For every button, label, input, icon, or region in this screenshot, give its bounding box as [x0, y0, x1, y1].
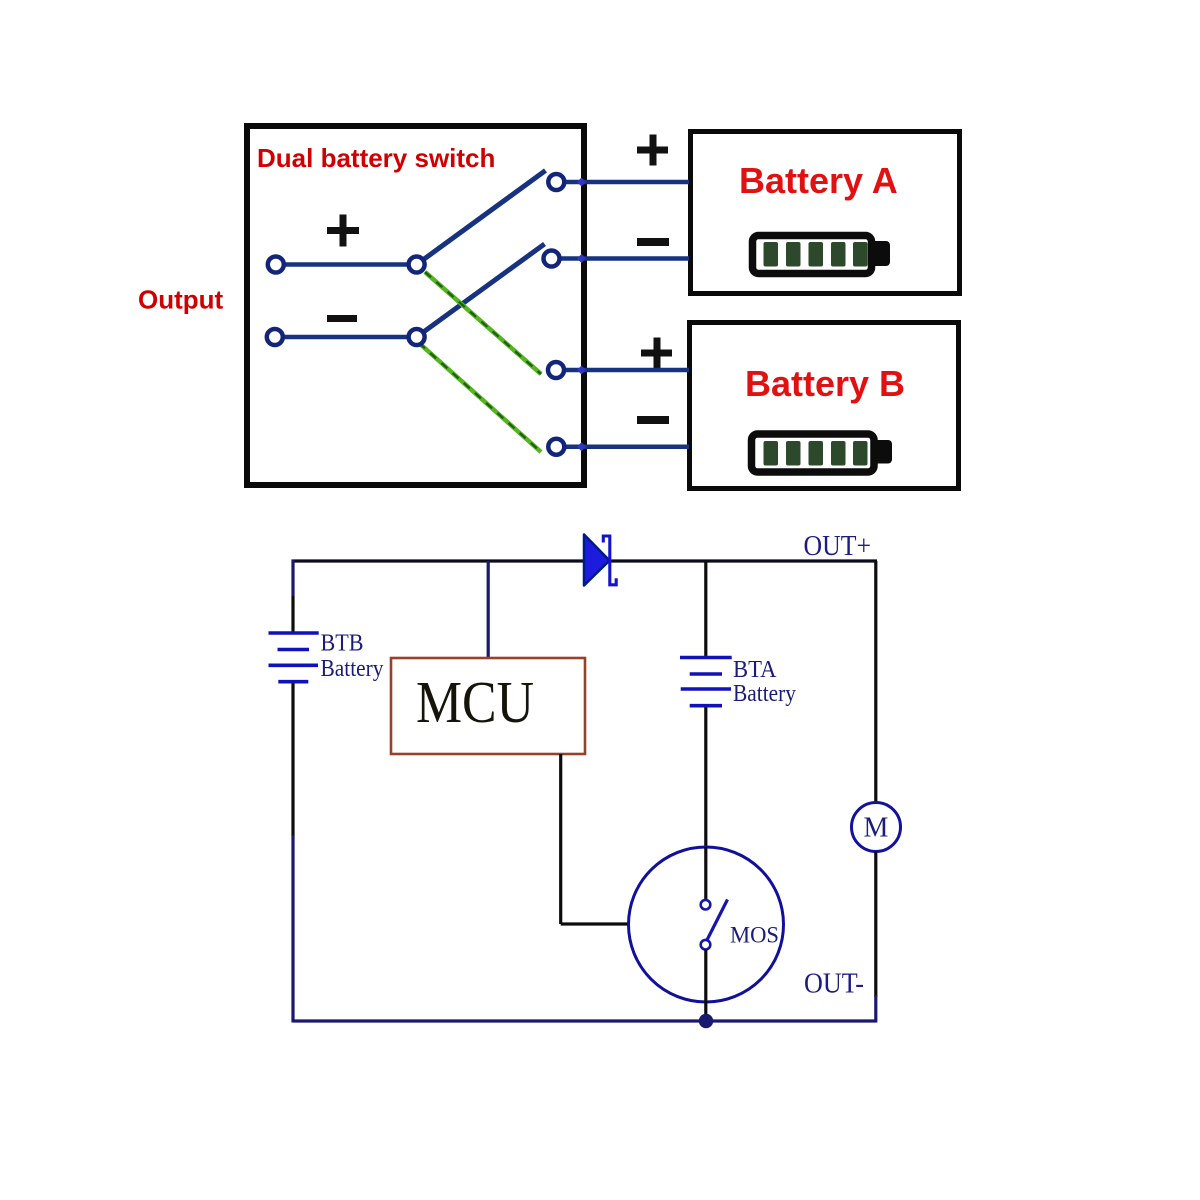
wire OUT+ rail — [292, 559, 878, 562]
wire crossing node A plus — [577, 177, 586, 186]
open position green line to Battery B minus — [419, 343, 541, 452]
Battery A box — [691, 132, 960, 294]
wire bottom rail — [293, 1019, 876, 1022]
node output plus — [268, 257, 284, 273]
svg-text:M: M — [864, 813, 889, 844]
node battery B plus — [548, 362, 564, 378]
minus label battery B — [637, 416, 669, 424]
svg-text:BTB: BTB — [321, 631, 364, 657]
node common plus — [409, 257, 425, 273]
MOS switch circle Q1 — [629, 847, 784, 1002]
plus label output — [327, 215, 359, 247]
wire left lower navy — [291, 835, 294, 1023]
svg-text:MOS: MOS — [730, 923, 779, 948]
wire crossing node B minus — [577, 442, 586, 451]
svg-text:Battery: Battery — [321, 656, 384, 682]
MOS blade — [707, 900, 728, 941]
node common minus — [409, 329, 425, 345]
svg-text:Battery B: Battery B — [745, 363, 905, 404]
wire BTB bottom black — [291, 684, 294, 837]
svg-text:BTA: BTA — [733, 657, 777, 683]
battery BTA — [680, 658, 732, 706]
wire terminal to Battery A minus — [552, 256, 689, 261]
diode D1 — [584, 535, 616, 586]
battery BTB — [269, 633, 319, 682]
wire output plus — [276, 262, 416, 267]
svg-text:Dual battery switch: Dual battery switch — [257, 143, 495, 173]
node output minus — [267, 329, 283, 345]
minus label battery A — [637, 238, 669, 246]
wire BTA top — [704, 561, 707, 657]
plus label battery B — [641, 338, 672, 369]
MOS contact top — [701, 900, 711, 910]
wire terminal to Battery A plus — [556, 180, 689, 185]
wire crossing node A minus — [577, 254, 586, 263]
node battery B minus — [548, 439, 564, 455]
plus label battery A — [637, 135, 668, 166]
wire crossing node B plus — [577, 365, 586, 374]
node battery A minus — [544, 251, 560, 267]
Battery B box — [690, 323, 959, 489]
wire output minus — [275, 335, 416, 340]
wire MCU top — [487, 561, 490, 659]
svg-text:Battery A: Battery A — [739, 160, 898, 201]
wire motor bottom — [874, 852, 877, 998]
MOS contact bottom — [701, 940, 711, 950]
svg-text:OUT-: OUT- — [804, 968, 864, 1000]
battery icon B — [752, 434, 893, 472]
node battery A plus — [548, 174, 564, 190]
svg-text:MCU: MCU — [416, 669, 534, 735]
switch blade plus to Battery A — [417, 171, 546, 265]
junction node — [699, 1014, 713, 1028]
motor M1 — [852, 803, 901, 852]
wire terminal to Battery B minus — [556, 444, 689, 449]
svg-text:OUT+: OUT+ — [804, 530, 872, 562]
svg-text:Battery: Battery — [733, 681, 796, 707]
dual battery switch box — [247, 126, 584, 485]
wire terminal to Battery B plus — [556, 368, 689, 373]
battery icon A — [753, 236, 891, 274]
wire BTB top — [291, 560, 294, 597]
MCU box U1 — [391, 658, 585, 754]
minus label output — [327, 315, 357, 322]
svg-text:Output: Output — [138, 285, 224, 315]
wire MOS bottom — [704, 950, 707, 1022]
switch blade minus to Battery A — [417, 244, 545, 337]
wire MCU gate vertical — [559, 754, 562, 924]
open position green line to Battery B plus — [425, 272, 541, 374]
wire right lower navy — [874, 995, 877, 1023]
wire BTA bottom — [704, 708, 707, 849]
wire MCU gate horizontal — [561, 922, 630, 925]
wire into MOS top — [704, 847, 707, 900]
wire motor top — [874, 561, 877, 803]
